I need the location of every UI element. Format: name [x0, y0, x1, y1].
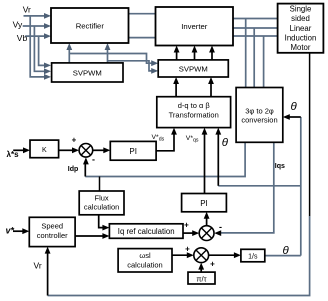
- wire SVPWM2 gate 2 to inverter: [194, 51, 196, 60]
- svg-text:π/τ: π/τ: [196, 274, 206, 283]
- svg-text:Inverter: Inverter: [181, 22, 208, 31]
- wire Vr phase input to rectifier: [24, 15, 46, 17]
- svg-text:+: +: [184, 221, 189, 230]
- summing junction q-current loop: [199, 226, 214, 241]
- wire transformation out 2 to SVPWM2: [210, 82, 212, 97]
- wire Vb phase input to rectifier: [25, 35, 45, 37]
- wire inverter-motor phase 2: [233, 27, 278, 29]
- wire DC bus lower: [129, 37, 156, 39]
- svg-text:Single: Single: [290, 5, 312, 14]
- Iq reference calculation block: [109, 224, 183, 239]
- svg-text:θ: θ: [283, 245, 290, 257]
- pi/tau block: [188, 272, 215, 284]
- wire ids from conversion: [85, 142, 245, 176]
- wire inverter-motor phase 3: [233, 35, 278, 37]
- wire Vy phase input to rectifier: [23, 25, 46, 27]
- svg-text:Vy: Vy: [13, 20, 23, 30]
- wire sum junction to PI1: [93, 149, 106, 151]
- slip frequency calculation block: [118, 249, 172, 272]
- svg-text:Vr: Vr: [34, 261, 42, 271]
- wire SVPWM1 gate pulse 1 to rectifier: [68, 48, 70, 63]
- wire motor speed feedback lower: [48, 216, 310, 296]
- wire wsl output to sum junction: [172, 254, 190, 256]
- svg-text:K: K: [42, 147, 47, 154]
- rectifier block: [51, 8, 129, 43]
- svg-text:Transformation: Transformation: [169, 110, 219, 119]
- wire sum junction to 1/s: [209, 254, 237, 256]
- wire flux calculation to Iq ref calculation: [99, 215, 105, 228]
- wire phase3 tap to conversion: [263, 36, 265, 88]
- svg-text:Iq ref calculation: Iq ref calculation: [118, 227, 175, 236]
- svg-text:+: +: [210, 260, 215, 269]
- PI controller d-axis block: [110, 141, 156, 160]
- d-q to alpha-beta transformation block: [157, 97, 231, 128]
- svg-text:sided: sided: [291, 14, 310, 23]
- wire SVPWM2 gate 1 to inverter: [176, 51, 178, 60]
- svg-text:SVPWM: SVPWM: [73, 68, 102, 77]
- wire Vy tap to SVPWM1: [34, 26, 45, 71]
- wire Iq ref output to q sum junction: [183, 232, 195, 234]
- integrator 1/s block: [241, 249, 265, 261]
- wire phase2 tap to conversion: [253, 28, 255, 88]
- svg-text:3φ to 2φ: 3φ to 2φ: [245, 107, 274, 116]
- wire phase1 tap to conversion: [245, 19, 247, 88]
- svg-text:-: -: [219, 222, 222, 232]
- svg-text:+: +: [185, 245, 190, 254]
- wire DC bus upper: [129, 13, 156, 15]
- svg-text:Motor: Motor: [291, 43, 311, 52]
- wire SVPWM1 gate pulse 2 to rectifier: [107, 48, 109, 63]
- SVPWM inverter-side block: [158, 60, 228, 77]
- wire Vb tap to SVPWM1: [39, 36, 46, 65]
- wire theta into conversion: [288, 116, 301, 118]
- wire V*qs into transformation: [204, 133, 206, 194]
- flux calculation block: [79, 191, 124, 215]
- wire V*ds into transformation: [156, 133, 174, 151]
- svg-text:Rectifier: Rectifier: [76, 21, 105, 30]
- wire pi/tau to sum junction: [200, 268, 202, 273]
- svg-text:-: -: [92, 155, 95, 165]
- wire motor speed feedback upper: [309, 53, 311, 216]
- wire link B to SVPWM2: [108, 61, 154, 71]
- wire Idp into flux sum junction: [84, 162, 86, 177]
- svg-text:calculation: calculation: [127, 260, 162, 269]
- PI controller q-axis block: [182, 194, 227, 212]
- svg-text:Speed: Speed: [41, 221, 63, 230]
- wire q sum junction to PI2: [206, 217, 208, 226]
- svg-text:Vb: Vb: [17, 33, 28, 43]
- svg-text:Idp: Idp: [68, 166, 79, 173]
- svg-text:λ*s: λ*s: [7, 150, 20, 159]
- wire Iqs feedback into q sum junction: [218, 142, 274, 233]
- gain K block: [30, 140, 59, 158]
- svg-text:θ: θ: [291, 101, 298, 113]
- wire Vr tap to SVPWM1: [30, 16, 45, 77]
- svg-text:PI: PI: [200, 199, 208, 208]
- svg-text:PI: PI: [129, 147, 137, 156]
- wire ids tap to flux calculation: [99, 177, 101, 192]
- wire SVPWM2 gate 3 to inverter: [211, 51, 213, 60]
- single sided linear induction motor block: [278, 4, 324, 53]
- svg-text:Iqs: Iqs: [275, 163, 285, 170]
- wire speed controller to Iq ref calculation: [75, 235, 105, 237]
- svg-text:calculation: calculation: [84, 203, 119, 212]
- wire inverter-motor phase 1: [233, 18, 278, 20]
- wire theta into transformation: [217, 133, 219, 186]
- svg-text:d-q to α β: d-q to α β: [178, 101, 211, 110]
- svg-text:θ: θ: [222, 137, 229, 149]
- svg-text:conversion: conversion: [241, 115, 277, 124]
- svg-text:ωsl: ωsl: [139, 251, 151, 260]
- summing junction flux loop: [79, 144, 93, 158]
- svg-text:Linear: Linear: [290, 24, 312, 33]
- wire theta branch: [218, 185, 300, 187]
- svg-text:1/s: 1/s: [248, 253, 258, 260]
- svg-text:Induction: Induction: [285, 33, 317, 42]
- wire theta riser: [300, 117, 302, 256]
- summing junction slip+speed: [194, 248, 209, 263]
- speed controller block: [29, 217, 75, 246]
- wire link A to SVPWM2: [69, 54, 153, 64]
- wire Vr feedback into speed controller: [47, 252, 49, 296]
- svg-text:+: +: [72, 136, 77, 145]
- svg-text:controller: controller: [37, 231, 68, 240]
- inverter block: [156, 7, 234, 46]
- SVPWM rectifier-side block: [52, 63, 123, 82]
- wire flux reference into K: [13, 149, 25, 151]
- 3-phase to 2-phase conversion block: [236, 88, 283, 143]
- svg-text:Flux: Flux: [95, 193, 109, 202]
- wire speed reference into speed controller: [13, 230, 25, 232]
- wire transformation out 1 to SVPWM2: [175, 82, 177, 97]
- wire K output into sum junction: [59, 149, 75, 151]
- svg-text:v*: v*: [6, 226, 15, 236]
- svg-text:SVPWM: SVPWM: [179, 64, 208, 73]
- wire 1/s output: [265, 255, 301, 257]
- svg-text:Vr: Vr: [23, 5, 31, 15]
